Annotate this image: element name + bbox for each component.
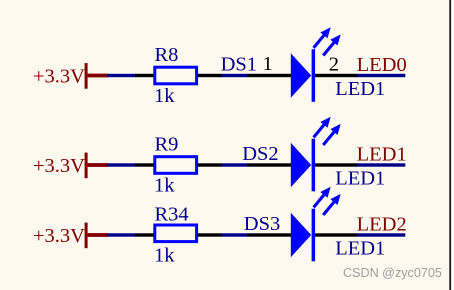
pin 1 of R8 [135,74,155,77]
LED DS1 cathode bar [312,49,316,102]
LED DS3 anode triangle [291,213,311,257]
wire (R to LED) [222,233,249,236]
wire (power to R) [107,74,135,77]
pin 2 of DS3 [315,233,358,236]
pin 2 of R8 [197,74,222,77]
svg-text:LED2: LED2 [357,213,407,235]
svg-text:DS1: DS1 [221,53,257,75]
LED DS2 anode triangle [291,143,311,187]
svg-text:1k: 1k [154,85,175,107]
LED light arrow 1 [314,125,325,138]
LED light arrow 2 [323,202,334,215]
svg-text:1k: 1k [154,174,175,196]
wire / net LED0 [357,74,405,77]
power port +3.3V (row 1) [33,63,108,89]
power port +3.3V (row 3) [33,223,108,249]
pin 1 of DS2 [248,163,293,166]
wire / net LED2 [357,233,405,236]
svg-text:LED1: LED1 [335,78,385,100]
svg-text:LED1: LED1 [335,168,385,190]
pin 2 of R9 [197,163,222,166]
LED light arrow 2 [323,132,334,145]
svg-text:R9: R9 [155,134,179,156]
svg-text:LED1: LED1 [335,238,385,260]
wire (power to R) [107,233,135,236]
svg-text:+3.3V: +3.3V [33,225,85,247]
svg-text:CSDN @zyc0705: CSDN @zyc0705 [343,266,442,280]
svg-text:LED0: LED0 [357,54,407,76]
pin 1 of R9 [135,163,155,166]
resistor R8 [155,67,197,84]
wire (R to LED) [222,163,249,166]
pin 1 of DS3 [248,233,293,236]
svg-text:+3.3V: +3.3V [33,66,85,88]
LED DS3 cathode bar [312,209,316,262]
pin 2 of DS1 [315,74,358,77]
resistor R9 [155,157,197,174]
svg-text:DS3: DS3 [244,213,280,235]
svg-text:+3.3V: +3.3V [33,155,85,177]
LED DS1 anode triangle [291,53,311,97]
svg-text:2: 2 [329,54,339,76]
resistor R34 [155,225,197,242]
LED light arrow 1 [314,195,325,208]
sheet border line [449,0,451,290]
wire (R to LED) [222,74,249,77]
svg-text:1: 1 [263,53,273,75]
LED light arrow 2 [323,42,334,55]
wire (power to R) [107,163,135,166]
svg-text:LED1: LED1 [357,143,407,165]
wire / net LED1 [357,163,405,166]
pin 1 of R34 [135,233,155,236]
svg-text:R34: R34 [155,204,189,226]
LED DS2 cathode bar [312,139,316,192]
LED light arrow 1 [314,35,325,48]
power port +3.3V (row 2) [33,153,108,179]
pin 2 of R34 [197,233,222,236]
pin 2 of DS2 [315,163,358,166]
svg-text:DS2: DS2 [242,143,278,165]
svg-text:R8: R8 [155,44,179,66]
svg-text:1k: 1k [154,244,175,266]
pin 1 of DS1 [248,74,293,77]
